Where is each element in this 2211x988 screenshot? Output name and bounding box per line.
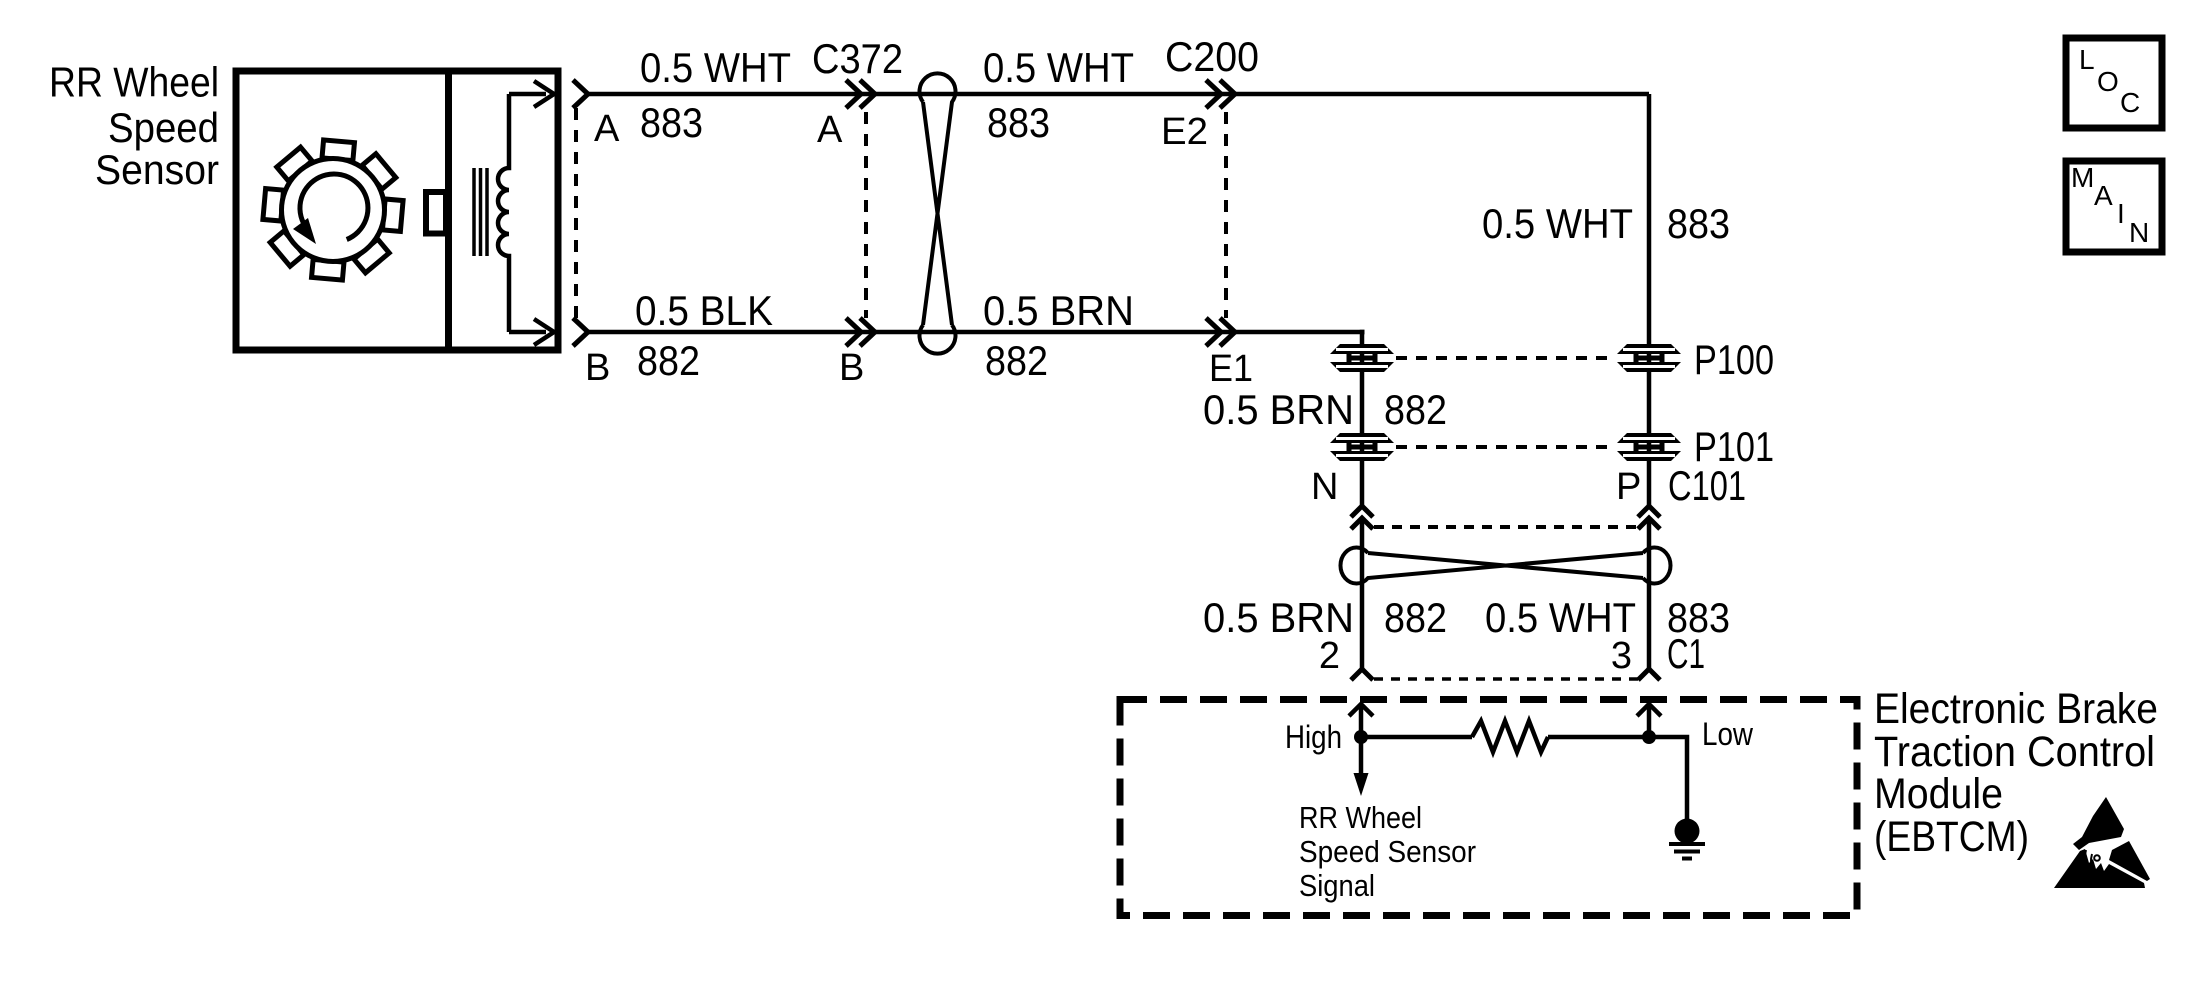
wire 882 sensor to E1 (bottom) <box>588 330 1365 335</box>
svg-text:Electronic Brake: Electronic Brake <box>1874 685 2158 733</box>
svg-text:RR Wheel: RR Wheel <box>1299 800 1422 835</box>
EBTCM dashed box <box>1120 700 1857 916</box>
sensor connector dashed line <box>574 108 578 318</box>
svg-text:882: 882 <box>985 337 1048 384</box>
connector C101 chevrons left <box>1351 506 1373 529</box>
svg-text:Speed: Speed <box>108 104 219 151</box>
svg-text:C372: C372 <box>812 35 903 82</box>
MAIN box <box>2066 161 2162 252</box>
svg-text:0.5 WHT: 0.5 WHT <box>1485 594 1636 641</box>
svg-text:(EBTCM): (EBTCM) <box>1874 813 2029 861</box>
twisted pair symbol (horizontal) <box>1340 548 1670 584</box>
sensor pickup stub <box>426 192 446 234</box>
LOC letters <box>2079 44 2140 118</box>
connector C372 chevrons (top) <box>846 80 875 108</box>
tone wheel (gear) teeth <box>263 140 403 280</box>
wire 882 below C101 <box>1360 518 1365 669</box>
svg-text:C: C <box>2120 87 2140 118</box>
LOC box <box>2066 38 2162 128</box>
signal arrowhead <box>1354 773 1369 796</box>
svg-text:P100: P100 <box>1694 336 1774 383</box>
svg-text:B: B <box>839 347 864 389</box>
svg-text:I: I <box>2117 198 2125 229</box>
junction dot Low <box>1642 730 1656 744</box>
wire end V at pin 3 <box>1638 669 1660 680</box>
svg-text:Speed Sensor: Speed Sensor <box>1299 834 1476 869</box>
svg-text:A: A <box>594 108 620 150</box>
connector C200 chevrons (E2) <box>1206 80 1235 108</box>
ESD bottom mass <box>2054 849 2145 888</box>
svg-text:0.5 BRN: 0.5 BRN <box>1203 386 1354 433</box>
svg-text:883: 883 <box>987 99 1050 146</box>
svg-text:E2: E2 <box>1161 111 1208 153</box>
coil lead to pin B <box>509 330 546 335</box>
svg-text:3: 3 <box>1611 635 1632 677</box>
P100 dashed line <box>1396 356 1615 360</box>
wire end V at pin 2 <box>1351 669 1373 680</box>
svg-text:M: M <box>2071 162 2094 193</box>
svg-text:High: High <box>1285 719 1342 755</box>
svg-text:Module: Module <box>1874 770 2003 818</box>
connector C101 chevrons right <box>1638 506 1660 529</box>
connector C372 chevrons (bottom) <box>846 318 875 346</box>
wire 883 right column <box>1647 94 1652 506</box>
svg-text:883: 883 <box>1667 200 1730 247</box>
svg-text:C101: C101 <box>1668 462 1746 509</box>
svg-text:N: N <box>2129 217 2149 248</box>
MAIN letters <box>2071 162 2149 248</box>
resistor <box>1472 721 1548 752</box>
EBTCM pin 2 stub with up arrow <box>1349 704 1373 737</box>
svg-text:Sensor: Sensor <box>95 146 219 193</box>
internal wire High to resistor <box>1361 735 1472 740</box>
label Electronic Brake Traction Control Module (EBTCM) <box>1874 685 2158 861</box>
ESD right triangle <box>2109 841 2150 881</box>
grommet P101 right <box>1617 433 1681 461</box>
grommet P100 left <box>1330 344 1394 372</box>
connector C1 dashed line <box>1374 677 1638 681</box>
connector C200 chevrons (E1) <box>1206 318 1235 346</box>
svg-text:Traction Control: Traction Control <box>1874 728 2155 776</box>
coil lead arrow A <box>534 81 554 107</box>
sensor pin B chevron <box>573 318 588 346</box>
ESD apex funnel <box>2073 797 2124 850</box>
sensor pin A chevron <box>573 80 588 108</box>
svg-text:C1: C1 <box>1667 630 1705 677</box>
svg-text:Signal: Signal <box>1299 868 1375 903</box>
ground dot <box>1675 819 1700 844</box>
wire 883 below C101 <box>1647 518 1652 669</box>
sensor coil <box>498 94 509 332</box>
EBTCM pin 3 stub with up arrow <box>1637 704 1661 737</box>
connector C200 dashed line <box>1224 112 1228 318</box>
svg-text:A: A <box>817 109 843 151</box>
label: RR Wheel Speed Sensor title <box>49 59 219 194</box>
svg-text:L: L <box>2079 44 2095 75</box>
tone wheel body <box>282 159 385 262</box>
svg-text:B: B <box>585 347 610 389</box>
coil lead to pin A <box>509 92 546 97</box>
connector C372 dashed line <box>864 112 868 318</box>
pickup core lines <box>474 168 487 256</box>
rotation arrow arc <box>300 174 368 240</box>
svg-text:2: 2 <box>1319 635 1340 677</box>
coil lead arrow B <box>534 319 554 345</box>
svg-text:N: N <box>1311 466 1338 508</box>
rotation arrowhead <box>293 218 316 244</box>
svg-text:883: 883 <box>640 99 703 146</box>
svg-text:0.5 BRN: 0.5 BRN <box>983 287 1134 334</box>
sensor internal divider <box>445 71 452 350</box>
svg-text:0.5 BLK: 0.5 BLK <box>635 287 773 334</box>
ESD finger curls <box>2085 850 2087 874</box>
svg-text:P: P <box>1616 466 1641 508</box>
RR wheel speed sensor box <box>236 71 558 350</box>
ground lines <box>1669 844 1705 859</box>
svg-text:E1: E1 <box>1209 348 1253 390</box>
internal wire resistor to Low corner <box>1548 737 1687 819</box>
junction dot High <box>1354 730 1368 744</box>
svg-text:C200: C200 <box>1165 33 1259 80</box>
svg-text:Low: Low <box>1702 716 1754 752</box>
svg-text:A: A <box>2094 180 2113 211</box>
P101 dashed line <box>1396 445 1615 449</box>
svg-text:0.5 WHT: 0.5 WHT <box>640 44 791 91</box>
svg-text:0.5 BRN: 0.5 BRN <box>1203 594 1354 641</box>
svg-text:882: 882 <box>1384 594 1447 641</box>
twisted pair symbol (vertical) <box>920 73 956 353</box>
svg-text:O: O <box>2097 66 2119 97</box>
grommet P101 left <box>1330 433 1394 461</box>
connector C101 dashed line <box>1374 525 1638 529</box>
svg-text:0.5 WHT: 0.5 WHT <box>1482 200 1633 247</box>
svg-text:RR Wheel: RR Wheel <box>49 59 219 106</box>
wire 883 sensor to C372 (top) <box>588 92 1649 97</box>
ESD warning symbol <box>2054 797 2150 888</box>
grommet P100 right <box>1617 344 1681 372</box>
label RR Wheel Speed Sensor Signal <box>1299 800 1476 903</box>
svg-text:882: 882 <box>637 337 700 384</box>
svg-text:882: 882 <box>1384 386 1447 433</box>
svg-text:0.5 WHT: 0.5 WHT <box>983 44 1134 91</box>
signal down arrow <box>1359 737 1364 778</box>
wire 882 left column <box>1362 332 1365 506</box>
